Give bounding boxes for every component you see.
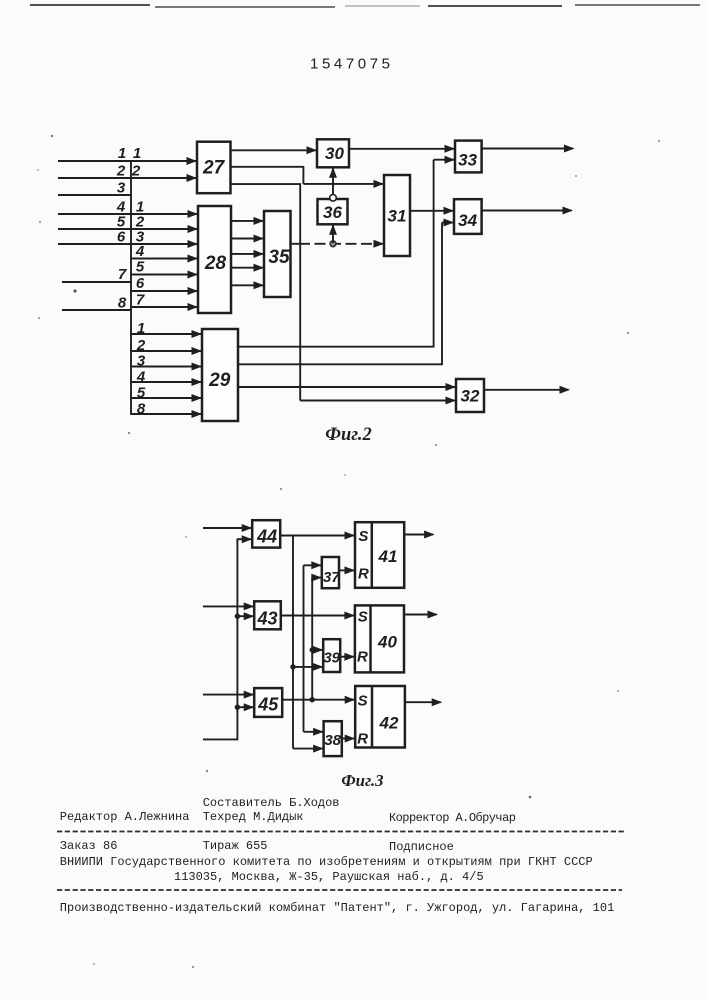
wire 35 out dashed to 31: [291, 240, 385, 248]
wire B to 37 in1: [304, 561, 322, 569]
fig2 input line 1: [58, 157, 197, 165]
footer vniipi line: [60, 855, 593, 869]
block 28: [198, 206, 231, 313]
label input 7: [118, 266, 127, 283]
junction dot A-39: [290, 664, 295, 669]
wire 32 output arrow: [484, 386, 570, 394]
block 40 RS trigger: [355, 605, 404, 672]
wire 27 out3 down: [231, 183, 301, 400]
footer dashed rule 1: [57, 831, 625, 833]
caption Fig.3: [341, 771, 383, 790]
label 29-in 3: [137, 353, 146, 370]
fig2 input line 6 / 28 input 3: [58, 240, 198, 248]
wire B to 38 in1: [304, 728, 324, 736]
wire 28 out5 to 35: [231, 281, 264, 289]
svg-text:1: 1: [133, 145, 141, 162]
svg-text:36: 36: [323, 203, 342, 222]
svg-text:5: 5: [137, 385, 146, 402]
svg-text:41: 41: [378, 547, 398, 566]
svg-text:35: 35: [268, 247, 290, 268]
wire 28 out1 to 35: [231, 217, 264, 225]
block 44: [252, 520, 280, 547]
wire bus to 43 in2: [237, 612, 254, 620]
svg-text:2: 2: [131, 163, 141, 180]
label input 5: [117, 214, 126, 231]
svg-text:2: 2: [136, 337, 146, 354]
wire 29 input 2: [131, 347, 202, 355]
wire 28 input 6: [131, 287, 198, 295]
svg-text:6: 6: [136, 275, 145, 292]
wire 28 input 7: [131, 303, 198, 311]
svg-text:S: S: [358, 609, 368, 626]
fig3 input line 4: [203, 738, 237, 740]
label 28-in 2: [135, 214, 145, 231]
wire 29 input 4: [131, 378, 202, 386]
wire 27 out1 to 30: [231, 146, 318, 154]
junction dot 43: [235, 614, 240, 619]
vertical wire A from 44 out: [292, 535, 294, 749]
svg-text:7: 7: [136, 292, 145, 309]
label 28-in 6: [136, 275, 145, 292]
wire 28 out2 to 35: [231, 235, 264, 243]
svg-text:3: 3: [117, 180, 126, 197]
wire bus to 44 in2: [237, 535, 253, 543]
block 32: [456, 379, 484, 412]
label 27-in 1: [133, 145, 141, 162]
svg-text:8: 8: [137, 401, 146, 418]
wire bus to 45 in2: [237, 703, 254, 711]
caption Fig.2: [325, 425, 371, 445]
block 30: [317, 139, 349, 167]
footer podpisnoe: [389, 840, 454, 854]
wire 34 output arrow: [482, 207, 573, 215]
wire 28 input 5: [131, 271, 198, 279]
footer tirazh: [203, 839, 268, 853]
svg-text:30: 30: [325, 144, 344, 163]
wire 36 to 30: [329, 167, 337, 194]
wire 41 output arrow: [404, 531, 434, 539]
label 28-in 3: [136, 229, 145, 246]
label 28-in 4: [135, 243, 145, 260]
svg-text:32: 32: [461, 387, 480, 406]
label input 1: [118, 145, 126, 162]
label 28-in 7: [136, 292, 145, 309]
wire 33 output arrow: [482, 145, 575, 153]
block 29: [202, 329, 238, 421]
svg-text:Подписное: Подписное: [389, 840, 454, 854]
footer corrector: [389, 811, 516, 825]
svg-text:33: 33: [458, 151, 477, 170]
wire C to 37 in2: [311, 574, 322, 582]
wire 29 out3 to 32: [238, 383, 456, 391]
svg-text:Фиг.2: Фиг.2: [325, 425, 371, 445]
svg-text:113035, Москва, Ж-35, Раушская: 113035, Москва, Ж-35, Раушская наб., д. …: [174, 870, 484, 884]
fig2 input line 2: [58, 174, 197, 182]
scan speckles: [37, 135, 660, 968]
svg-text:44: 44: [256, 527, 277, 547]
svg-text:8: 8: [118, 295, 127, 312]
fig2 input line 4 / 28 input 1: [58, 210, 198, 218]
svg-text:4: 4: [135, 243, 145, 260]
block 38: [324, 721, 342, 756]
svg-text:2: 2: [116, 163, 126, 180]
block 42 RS trigger: [355, 686, 405, 748]
wire 29 out1 to 33: [238, 156, 455, 348]
svg-text:S: S: [358, 528, 368, 545]
wire 37 out to 41 R: [339, 566, 355, 574]
svg-text:42: 42: [379, 714, 399, 733]
block 36: [318, 199, 348, 224]
block 43: [254, 601, 281, 629]
svg-text:R: R: [357, 649, 368, 666]
svg-text:1: 1: [137, 320, 145, 337]
junction dot C-45: [310, 697, 315, 702]
label input 6: [117, 229, 126, 246]
fig2 input line 7: [62, 281, 131, 283]
footer zakaz: [60, 839, 118, 853]
wire 42 output arrow: [405, 698, 442, 706]
wire A to 38 in2: [293, 745, 324, 753]
label input 8: [118, 295, 127, 312]
wire 28 out4 to 35: [231, 264, 264, 272]
svg-text:40: 40: [377, 633, 397, 652]
fig2 input line 8: [62, 309, 131, 311]
block 37: [322, 557, 340, 588]
svg-text:28: 28: [204, 253, 227, 274]
label 29-in 5: [137, 385, 146, 402]
block 45: [254, 688, 282, 717]
label 28-in 1: [136, 199, 144, 216]
wire node to 36: [329, 224, 337, 243]
block 35: [264, 211, 291, 297]
svg-text:1: 1: [118, 145, 126, 162]
block 27: [197, 142, 231, 194]
svg-text:34: 34: [458, 211, 477, 230]
fig3 input line 3: [203, 691, 254, 699]
svg-text:Тираж 655: Тираж 655: [203, 839, 268, 853]
wire 29 input 6: [131, 410, 202, 418]
fig3 input line 1: [203, 524, 252, 532]
svg-text:Фиг.3: Фиг.3: [341, 771, 383, 790]
wire 29 input 5: [131, 394, 202, 402]
node circle on 36 top: [330, 195, 337, 202]
label 29-in 8: [137, 401, 146, 418]
svg-text:R: R: [357, 731, 368, 748]
svg-text:ВНИИПИ Государственного комите: ВНИИПИ Государственного комитета по изоб…: [60, 855, 593, 869]
wire 27 out2 to 31: [231, 166, 385, 188]
fig2 input line 3: [58, 194, 131, 196]
svg-text:Заказ 86: Заказ 86: [60, 839, 118, 853]
fig2 input line 5 / 28 input 2: [58, 225, 198, 233]
wire 29 input 3: [131, 363, 202, 371]
block 41 RS trigger: [355, 522, 404, 588]
vertical wire C: [311, 578, 313, 700]
svg-text:1547075: 1547075: [310, 56, 394, 73]
footer techred: [203, 810, 304, 824]
svg-text:39: 39: [323, 650, 340, 667]
svg-text:Составитель Б.Ходов: Составитель Б.Ходов: [203, 796, 340, 810]
block 34: [454, 199, 482, 234]
wire 31 out to 34: [410, 207, 454, 215]
block 33: [455, 141, 482, 173]
svg-text:Корректор А.Обручар: Корректор А.Обручар: [389, 811, 516, 825]
wire 30 out to 33: [349, 145, 455, 153]
footer production line: [60, 901, 615, 915]
svg-text:6: 6: [117, 229, 126, 246]
label 27-in 2: [131, 163, 141, 180]
svg-text:4: 4: [136, 369, 146, 386]
footer editor: [60, 810, 190, 824]
svg-text:27: 27: [202, 158, 226, 179]
svg-text:Редактор А.Лежнина: Редактор А.Лежнина: [60, 810, 190, 824]
label input 2: [116, 163, 126, 180]
svg-text:37: 37: [323, 569, 340, 586]
label 29-in 4: [136, 369, 146, 386]
svg-text:3: 3: [137, 353, 146, 370]
svg-text:Производственно-издательский к: Производственно-издательский комбинат "П…: [60, 901, 615, 915]
fig3 input bus: [236, 539, 238, 740]
svg-text:45: 45: [257, 695, 279, 715]
wire A to 39 in2: [293, 663, 323, 671]
label input 3: [117, 180, 126, 197]
svg-text:31: 31: [388, 207, 407, 226]
svg-text:R: R: [358, 566, 369, 583]
svg-text:43: 43: [256, 609, 277, 629]
svg-text:S: S: [358, 693, 368, 710]
block 31: [384, 175, 410, 256]
wire 40 output arrow: [404, 611, 438, 619]
svg-text:Техред М.Дидык: Техред М.Дидык: [203, 810, 304, 824]
wire 28 input 4: [131, 255, 198, 263]
wire 29 input 1: [131, 330, 202, 338]
label input 4: [116, 199, 126, 216]
wire 38 out to 42 R: [342, 735, 355, 743]
footer address line: [174, 870, 484, 884]
wire 29 out2 to 34: [238, 219, 454, 366]
page top edge line: [30, 5, 700, 7]
wire 45 out to 42 S: [282, 696, 355, 704]
wire 44 out to 41 S: [280, 532, 355, 540]
wire 39 out to 40 R: [340, 653, 355, 661]
svg-text:29: 29: [208, 370, 231, 391]
svg-text:38: 38: [324, 732, 341, 749]
wire 28 out3 to 35: [231, 250, 264, 258]
label 29-in 2: [136, 337, 146, 354]
fig3 input line 2: [203, 602, 254, 610]
vertical wire B: [303, 565, 305, 732]
wire to 32 input 2: [300, 397, 456, 405]
label 28-in 5: [136, 259, 145, 276]
svg-text:5: 5: [136, 259, 145, 276]
footer compiler line: [203, 796, 340, 810]
wire 43 out to 40 S: [281, 612, 355, 620]
patent number 1547075: [310, 56, 394, 73]
junction dot C-39: [310, 647, 315, 652]
junction dot 45: [235, 705, 240, 710]
svg-text:7: 7: [118, 266, 127, 283]
label 29-in 1: [137, 320, 145, 337]
fig2 input bus: [130, 160, 132, 415]
footer dashed rule 2: [57, 889, 622, 891]
node on dashed wire: [330, 241, 336, 247]
block 39: [323, 639, 340, 672]
wire C to 39 in1: [312, 646, 323, 654]
